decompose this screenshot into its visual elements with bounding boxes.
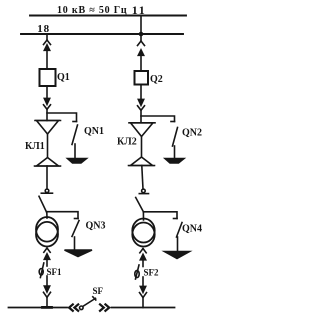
busbar bottom right segment — [112, 307, 175, 309]
wire + arrow down to bottom bus (left) — [46, 276, 48, 286]
wire: branch to grounding switch QN4 — [143, 212, 177, 219]
wire: top bus to bus 18 (right feeder) with junction — [140, 16, 142, 42]
fixed fork below T2 — [140, 249, 146, 253]
svg-text:SF1: SF1 — [47, 267, 63, 277]
transformer T2 winding 1 — [132, 219, 154, 243]
cable wire КЛ2 — [141, 137, 143, 158]
plug contact arrow up (left upper) — [44, 45, 49, 51]
wire: switch to transformer T2 — [142, 212, 144, 220]
fixed contact tick QN4 — [174, 218, 178, 220]
breaker SF1 (slashed circle) — [39, 269, 43, 276]
wire: cable to load switch — [46, 166, 48, 189]
tie breaker SF hinge circle — [80, 306, 84, 310]
grounding switch QN3 blade — [72, 221, 79, 237]
cable termination upper (КЛ2) — [131, 123, 154, 137]
busbar bottom left segment — [9, 307, 68, 309]
plug contact arrow up (right upper) — [138, 50, 143, 56]
breaker Q1 — [40, 69, 56, 86]
cable termination lower (КЛ2) — [131, 157, 153, 166]
load switch blade (right, open) — [136, 198, 144, 212]
svg-text:Q2: Q2 — [150, 74, 163, 85]
plug contact fixed fork (right upper) — [138, 41, 145, 46]
fixed fork Y at bottom bus (left) — [44, 292, 51, 297]
svg-text:QN3: QN3 — [86, 221, 106, 232]
wire: QN2 to ground — [174, 146, 176, 159]
wire: bus 18 stub to fixed fork (left feeder) — [46, 34, 48, 40]
svg-text:11: 11 — [132, 3, 147, 17]
plug contact arrow up (below T1) — [44, 254, 49, 259]
wire: fork to junction — [140, 110, 142, 123]
svg-text:SF2: SF2 — [144, 268, 160, 278]
wire: branch to grounding switch QN3 — [47, 212, 79, 219]
busbar line 18 (second bus) — [21, 33, 183, 35]
svg-text:18: 18 — [37, 23, 50, 35]
wire: fork to junction — [46, 109, 48, 121]
svg-text:QN1: QN1 — [84, 126, 104, 137]
grounding switch QN2 blade — [173, 128, 178, 147]
svg-text:Q1: Q1 — [57, 72, 70, 83]
wire: branch to grounding switch QN2 — [141, 116, 175, 122]
wire: arrow shaft to SF2 — [142, 259, 144, 267]
ground (QN1) — [68, 159, 87, 164]
transformer T1 winding 1 — [36, 217, 58, 242]
fixed fork below T1 — [44, 248, 50, 252]
wire: cable to load switch (right) — [142, 166, 143, 190]
fixed contact tick QN3 — [75, 218, 79, 220]
wire: QN1 to ground — [74, 144, 76, 159]
grounding switch QN1 blade — [72, 125, 78, 145]
wire: QN3 to ground — [74, 237, 76, 250]
wire + arrow down to bottom bus (right) — [142, 277, 144, 287]
cable termination lower (КЛ1) — [37, 158, 59, 167]
svg-text:QN2: QN2 — [182, 128, 202, 139]
load switch fixed contact (right) — [142, 189, 146, 193]
wire: Q1 bottom down — [46, 86, 48, 98]
wire: switch to transformer T1 — [46, 212, 48, 218]
tie plug contacts left « — [69, 304, 73, 310]
wire: arrow shaft to SF1 — [46, 258, 48, 266]
cable wire КЛ1 — [47, 134, 49, 158]
breaker SF2 (slashed circle) — [135, 270, 139, 277]
wire: arrow shaft down to Q1 — [46, 49, 48, 69]
load switch fixed contact (circle on bar) — [45, 189, 49, 193]
wire: branch to grounding switch QN1 — [47, 113, 77, 122]
arrow down (below Q2) — [138, 99, 143, 105]
wire: Q2 bottom down — [140, 85, 142, 100]
tie plug contacts right » — [100, 304, 104, 310]
svg-text:10 кВ ≈ 50 Гц: 10 кВ ≈ 50 Гц — [57, 5, 127, 16]
ground (QN2) — [165, 159, 184, 164]
junction serif at left feeder / bottom bus — [43, 306, 52, 309]
fixed contact tick QN1 — [73, 121, 77, 123]
transformer T2 winding 2 — [132, 223, 154, 247]
arrow down (moving contact below Q1) — [44, 98, 49, 104]
fixed contact tick QN2 — [171, 121, 175, 123]
fixed fork Y at bottom bus (right) — [140, 293, 147, 298]
cable termination upper (КЛ1) — [37, 121, 59, 135]
wire: QN4 to ground — [177, 237, 179, 252]
ground (QN4) — [165, 252, 190, 259]
wire: arrow shaft to Q2 — [140, 54, 142, 71]
tie breaker SF blade — [83, 298, 96, 306]
busbar line 1 (10 kV top bus) — [30, 15, 186, 17]
svg-text:КЛ1: КЛ1 — [25, 141, 45, 152]
fixed fork V (right, below Q2) — [138, 106, 145, 111]
svg-text:КЛ2: КЛ2 — [117, 137, 137, 148]
plug contact arrow up (below T2) — [140, 254, 145, 259]
grounding switch QN4 blade — [177, 223, 183, 238]
fixed fork V (left, below Q1) — [44, 105, 51, 110]
svg-text:SF: SF — [93, 286, 104, 296]
breaker Q2 — [135, 71, 149, 85]
ground (QN3) — [65, 250, 93, 257]
plug contact fixed fork (left upper) — [44, 40, 51, 45]
junction dot at bus 18 — [139, 32, 144, 37]
load switch blade (open) — [39, 196, 47, 212]
svg-text:QN4: QN4 — [182, 224, 202, 235]
transformer T1 winding 2 — [36, 222, 58, 247]
